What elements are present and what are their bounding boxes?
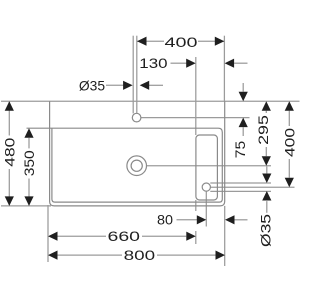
arrow 480 top: [5, 101, 14, 111]
wire tap hole right extension: [136, 36, 138, 114]
arrow 400 right bottom: [285, 178, 294, 188]
svg-text:480: 480: [1, 137, 17, 166]
svg-text:400: 400: [165, 34, 198, 50]
svg-text:130: 130: [139, 55, 167, 71]
dimension line 80: [177, 219, 198, 221]
arrow 400 right top: [285, 101, 294, 111]
drain outer circle: [127, 156, 147, 176]
dimension line 75: [242, 83, 244, 92]
svg-text:Ø35: Ø35: [79, 78, 105, 94]
arrow 800 right: [216, 251, 226, 260]
wire front extension line left: [1, 205, 51, 207]
tap hole circle: [132, 113, 141, 122]
wire overflow top tangent: [210, 182, 271, 184]
arrow 660 left: [48, 232, 58, 241]
svg-text:660: 660: [108, 228, 141, 244]
arrow 75 upper down-pointing: [239, 92, 248, 102]
arrow d35 callout left-pointing: [140, 81, 150, 90]
svg-text:400: 400: [282, 128, 298, 157]
wire overflow extension down: [205, 191, 207, 226]
wire left edge extension below: [47, 205, 49, 262]
arrow 400 top left: [137, 37, 147, 46]
svg-text:75: 75: [232, 141, 248, 159]
dimension line 130: [171, 62, 187, 64]
svg-text:350: 350: [21, 150, 37, 176]
svg-text:80: 80: [157, 211, 173, 227]
arrow right-edge outside left-pointing on 130 row: [225, 59, 235, 68]
dimension line 800: [58, 254, 123, 256]
arrow 80 left right-pointing: [197, 215, 207, 224]
arrow d35 callout right-pointing: [123, 81, 133, 90]
arrow 295 bottom: [262, 156, 271, 166]
arrow d35 right bottom up-pointing: [262, 191, 271, 201]
dimension line 660: [58, 235, 107, 237]
arrow 350 bottom: [24, 196, 33, 206]
svg-text:295: 295: [255, 115, 271, 145]
arrow 400 top right: [215, 37, 225, 46]
wire tail of right-edge outside arrow: [234, 62, 247, 64]
dimension line 295: [265, 111, 267, 113]
arrow d35 right top down-pointing: [262, 174, 271, 184]
arrow 295 top: [262, 101, 271, 111]
arrow 800 left: [48, 251, 58, 260]
tray contour: [196, 135, 218, 200]
arrow 75 lower up-pointing: [239, 118, 248, 128]
basin outer contour: [50, 101, 225, 206]
wire back reference line: [1, 100, 300, 102]
overflow hole circle: [202, 183, 210, 191]
wire overflow centerline: [210, 186, 294, 188]
wire right edge extension above: [223, 36, 225, 102]
svg-text:Ø35: Ø35: [257, 214, 273, 247]
arrow 80 right left-pointing: [225, 215, 235, 224]
drain inner circle: [131, 160, 142, 171]
wire tap hole left extension: [132, 36, 134, 114]
dimension line diameter 35 right: [266, 167, 268, 174]
wire tap-hole centerline: [141, 117, 250, 119]
svg-text:800: 800: [124, 247, 156, 263]
arrow 480 bottom: [5, 196, 14, 206]
basin inner rim and rear step line: [27, 128, 223, 202]
dimension line 350: [28, 138, 30, 149]
wire right edge extension below: [224, 206, 226, 266]
dimension line diameter 35 callout: [106, 84, 124, 86]
dimension line 480: [8, 101, 10, 135]
dimension line 400 right: [288, 111, 290, 126]
wire drain centerline: [147, 165, 272, 167]
wire tray left extension: [195, 57, 197, 135]
arrow 130 right: [186, 59, 196, 68]
arrow 660 right: [186, 232, 196, 241]
arrow 350 top: [24, 128, 33, 138]
dimension line 400 top: [137, 40, 164, 42]
wire overflow bottom tangent: [210, 190, 271, 192]
